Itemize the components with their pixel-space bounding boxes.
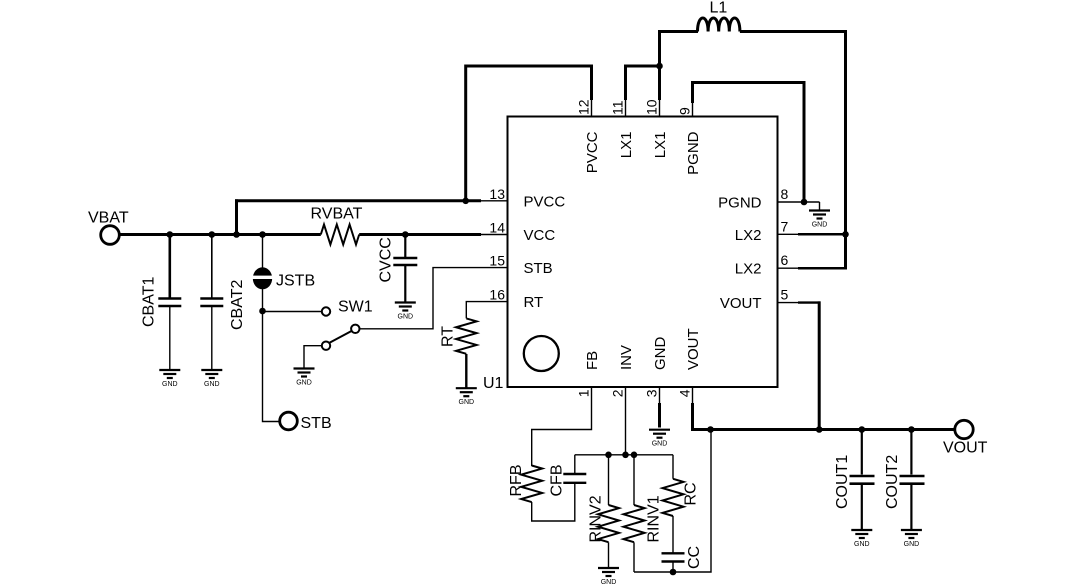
svg-text:STB: STB — [524, 260, 553, 277]
junction JSTB-SW1 — [259, 308, 266, 315]
svg-text:15: 15 — [489, 253, 505, 269]
svg-text:3: 3 — [644, 389, 660, 397]
svg-text:RVBAT: RVBAT — [311, 206, 363, 223]
svg-text:LX2: LX2 — [735, 261, 762, 278]
wire pin 9 PGND net — [692, 102, 694, 117]
switch SW1 — [322, 307, 360, 350]
wire pin 6 LX2 — [778, 267, 800, 269]
svg-text:LX1: LX1 — [652, 132, 669, 159]
wire compensation bottom line — [634, 430, 711, 573]
capacitor COUT1 — [850, 430, 875, 531]
ground COUT1 — [851, 530, 872, 548]
svg-text:PGND: PGND — [685, 131, 702, 175]
junction pin8-pin9 net — [801, 199, 808, 206]
junction rail-JSTB — [259, 231, 266, 238]
resistor RINV2 — [598, 505, 619, 542]
wire RINV2 to ground — [608, 542, 610, 568]
svg-text:L1: L1 — [710, 0, 728, 17]
svg-text:PVCC: PVCC — [524, 193, 566, 210]
resistor RINV1 — [624, 505, 645, 542]
svg-text:8: 8 — [781, 186, 789, 202]
svg-text:CBAT1: CBAT1 — [141, 277, 158, 327]
wire RINV1 bottom lead — [633, 542, 635, 572]
svg-text:9: 9 — [677, 107, 693, 115]
capacitor CC — [662, 553, 685, 572]
svg-text:VOUT: VOUT — [943, 440, 988, 457]
wire pin 13 PVCC horizontal — [235, 199, 481, 202]
ground pin 3 — [649, 430, 670, 448]
jumper JSTB — [251, 235, 274, 312]
svg-text:RINV2: RINV2 — [588, 495, 605, 542]
terminal STB — [280, 412, 298, 430]
wire L1 left lead — [658, 30, 698, 33]
ground RT — [456, 388, 477, 406]
junction VOUT-pin5 — [816, 426, 823, 433]
junction rail-CVCC — [402, 231, 409, 238]
svg-text:13: 13 — [489, 186, 505, 202]
junction rail-CBAT1 — [167, 231, 174, 238]
svg-text:RINV1: RINV1 — [646, 495, 663, 542]
wire pin8 gnd drop — [819, 202, 821, 211]
svg-text:4: 4 — [677, 389, 693, 397]
wire SW1 pole to ground — [304, 346, 322, 369]
capacitor CFB — [563, 455, 586, 483]
svg-text:6: 6 — [781, 252, 789, 268]
wire INV node line — [575, 454, 673, 456]
wire RINV2 top lead — [608, 455, 610, 505]
svg-text:U1: U1 — [483, 375, 504, 392]
svg-text:CVCC: CVCC — [378, 237, 395, 282]
wire pin 12 net — [591, 99, 593, 117]
wire JSTB to STB terminal — [263, 311, 282, 422]
svg-text:RC: RC — [683, 482, 700, 505]
wire RFB bottom to CFB bottom — [532, 484, 575, 522]
junction VOUT-CC branch — [707, 426, 714, 433]
svg-text:INV: INV — [618, 345, 635, 370]
wire pin 7 LX2 — [778, 233, 800, 235]
svg-text:CFB: CFB — [549, 465, 566, 497]
resistor RT — [456, 318, 477, 353]
capacitor CVCC — [393, 235, 417, 303]
ground CBAT1 — [159, 370, 180, 388]
wire pin 1 FB net — [532, 387, 592, 467]
terminal VOUT — [955, 420, 973, 438]
svg-text:1: 1 — [576, 389, 592, 397]
wire RINV1 top lead — [633, 455, 635, 505]
svg-text:PGND: PGND — [718, 195, 762, 212]
svg-text:11: 11 — [610, 100, 626, 115]
wire VCC rail right of RVBAT — [359, 233, 481, 236]
resistor RVBAT — [321, 225, 359, 245]
svg-text:FB: FB — [584, 351, 601, 370]
wire RC to CC — [672, 516, 674, 553]
svg-text:12: 12 — [576, 99, 592, 115]
svg-text:2: 2 — [610, 389, 626, 397]
capacitor CBAT2 — [200, 235, 223, 371]
junction pin11-pin10 — [656, 63, 663, 70]
svg-text:CC: CC — [686, 546, 703, 569]
capacitor COUT2 — [900, 430, 925, 531]
svg-text:COUT2: COUT2 — [884, 455, 901, 509]
wire VBAT rail left of RVBAT — [118, 233, 321, 236]
ground CBAT2 — [201, 370, 222, 388]
wire pin 11 net — [625, 99, 627, 117]
ground CVCC — [395, 303, 416, 321]
svg-text:SW1: SW1 — [338, 299, 373, 316]
wire pin 3 GND stub — [659, 387, 661, 428]
svg-text:VOUT: VOUT — [720, 295, 762, 312]
ground RINV2 — [598, 568, 619, 586]
svg-text:10: 10 — [644, 99, 660, 115]
wire pin 4 VOUT net thick — [693, 403, 956, 430]
svg-text:CBAT2: CBAT2 — [229, 280, 246, 330]
wire pin 2 INV — [625, 387, 627, 455]
svg-text:16: 16 — [489, 287, 505, 303]
junction INV-RINV2 — [605, 452, 612, 459]
junction rail-CBAT2 — [209, 231, 216, 238]
junction VOUT-COUT1 — [859, 426, 866, 433]
svg-text:RT: RT — [524, 294, 544, 311]
svg-text:VBAT: VBAT — [88, 210, 129, 227]
capacitor CBAT1 — [158, 235, 181, 371]
resistor RC — [663, 479, 684, 516]
wire pin 14 thin stub — [480, 234, 508, 236]
wire pin 8 PGND — [778, 201, 820, 203]
wire RC top lead — [672, 455, 674, 479]
inductor L1 — [698, 18, 740, 32]
wire RT to ground — [465, 354, 467, 388]
wire pin 16 to RT — [466, 302, 507, 319]
svg-text:COUT1: COUT1 — [834, 455, 851, 509]
svg-text:VOUT: VOUT — [685, 328, 702, 370]
wire pin 13 thin stub — [480, 200, 508, 202]
junction pin13-pin12 net — [462, 198, 469, 205]
ground PGND — [809, 211, 830, 229]
resistor RFB — [521, 466, 542, 503]
svg-text:RT: RT — [440, 326, 457, 347]
svg-text:VCC: VCC — [524, 227, 556, 244]
ground SW1 — [294, 369, 315, 387]
svg-text:LX2: LX2 — [735, 227, 762, 244]
terminal VBAT — [101, 226, 120, 245]
junction VOUT-COUT2 — [908, 426, 915, 433]
svg-text:JSTB: JSTB — [276, 273, 315, 290]
IC U1 body — [508, 117, 778, 388]
svg-text:RFB: RFB — [508, 465, 525, 497]
wire pin 10 net to L1 — [659, 99, 661, 117]
junction INV-pin2 — [622, 452, 629, 459]
svg-text:7: 7 — [781, 218, 789, 234]
U1 pin-1 marker circle — [524, 336, 559, 371]
wire pin 5 VOUT net — [778, 302, 800, 304]
svg-text:14: 14 — [489, 219, 505, 235]
junction LX2 vertical-pin7 — [842, 231, 849, 238]
wire junction to SW1 — [263, 311, 322, 313]
wire SW1 throw to pin 15 — [360, 268, 508, 329]
svg-text:LX1: LX1 — [618, 132, 635, 159]
svg-text:PVCC: PVCC — [584, 131, 601, 173]
svg-text:STB: STB — [301, 415, 332, 432]
ground COUT2 — [901, 530, 922, 548]
junction CC-bottom line — [670, 569, 677, 576]
wire pin 4 VOUT stub thin — [692, 387, 694, 405]
junction INV-RINV1 — [631, 452, 638, 459]
junction rail-PVCC branch — [233, 231, 240, 238]
wire pin 13 PVCC branch vertical — [235, 199, 238, 234]
svg-text:5: 5 — [781, 287, 789, 303]
wire L1 right lead to LX2 — [740, 32, 846, 269]
svg-text:GND: GND — [652, 337, 669, 371]
